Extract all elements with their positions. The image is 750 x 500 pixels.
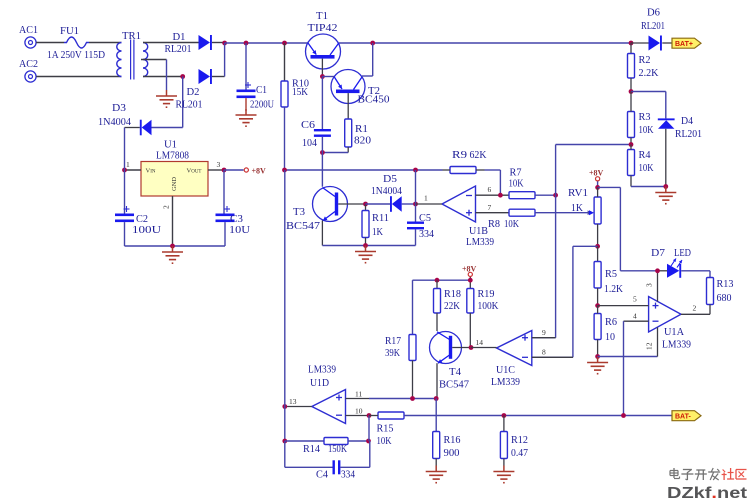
svg-text:D3: D3	[112, 102, 127, 114]
wire +8V branch to D7 riser	[598, 187, 621, 270]
svg-text:FU1: FU1	[60, 25, 79, 37]
junction R18 top	[435, 278, 440, 283]
wire R4 to ground	[631, 186, 666, 188]
wire R8 to RV1 wiper	[535, 210, 592, 215]
svg-text:LM339: LM339	[308, 364, 336, 376]
svg-text:11: 11	[355, 390, 362, 399]
svg-text:R4: R4	[639, 149, 651, 161]
svg-text:680: 680	[717, 292, 732, 304]
wire D3 cathode riser	[124, 128, 126, 171]
svg-text:820: 820	[354, 135, 372, 147]
junction R12 top	[502, 413, 507, 418]
op-amp U1C LM339	[491, 331, 532, 389]
svg-text:1N4004: 1N4004	[98, 116, 131, 128]
wire R1 bottom	[322, 152, 348, 154]
svg-text:R5: R5	[605, 268, 617, 280]
transistor T3	[286, 187, 366, 246]
wire BAT- line	[404, 415, 672, 417]
junction T3 base	[363, 202, 368, 207]
resistor R12	[500, 416, 528, 466]
wire T1 base to C6	[321, 77, 323, 130]
junction R11 bottom	[363, 243, 368, 248]
wire pin13 riser up	[284, 170, 286, 407]
svg-text:D1: D1	[173, 31, 186, 43]
svg-text:1: 1	[424, 194, 428, 203]
svg-text:R18: R18	[444, 288, 461, 300]
svg-text:RL201: RL201	[675, 128, 702, 140]
resistor R17	[385, 335, 416, 399]
ground center tap	[156, 90, 177, 107]
svg-text:R13: R13	[717, 278, 734, 290]
svg-text:T1: T1	[316, 10, 328, 22]
capacitor C1	[237, 82, 275, 111]
svg-text:T4: T4	[449, 366, 461, 378]
svg-text:22K: 22K	[444, 300, 460, 312]
wire pin11 line	[369, 398, 436, 400]
svg-text:10K: 10K	[377, 435, 392, 447]
junction D2 anode	[180, 74, 185, 79]
port BAT+	[672, 38, 701, 48]
wire AC2 to TR1	[36, 76, 121, 78]
svg-text:LM7808: LM7808	[156, 150, 189, 162]
svg-text:BAT+: BAT+	[675, 41, 693, 48]
svg-text:U1C: U1C	[496, 364, 515, 376]
svg-text:D2: D2	[187, 86, 200, 98]
resistor R16	[433, 432, 461, 466]
terminal AC2	[19, 58, 38, 82]
svg-text:1K: 1K	[571, 202, 583, 214]
junction T4 emitter	[434, 396, 439, 401]
junction C5 riser top	[413, 168, 418, 173]
junction D4 bottom	[663, 184, 668, 189]
junction C1 top	[244, 41, 249, 46]
junction D1 cathode	[222, 41, 227, 46]
wire riser R7 node to pin9	[532, 195, 556, 338]
svg-text:+8V: +8V	[589, 169, 604, 178]
svg-text:R6: R6	[605, 316, 617, 328]
junction T2 collector riser	[370, 41, 375, 46]
resistor R13	[707, 278, 734, 315]
junction T1 base	[320, 74, 325, 79]
pin 9 U1C	[532, 328, 556, 338]
transformer TR1	[117, 30, 148, 80]
junction R9 pin6	[498, 193, 503, 198]
svg-text:3: 3	[645, 283, 654, 287]
wire gnd to pin12	[598, 356, 658, 358]
junction U1 output	[222, 168, 227, 173]
capacitor C2	[115, 206, 161, 236]
svg-text:R2: R2	[639, 54, 651, 66]
svg-text:12: 12	[645, 342, 654, 350]
junction R7 right	[553, 193, 558, 198]
wire R9 to pin6 node	[485, 170, 501, 195]
capacitor C6	[301, 119, 331, 149]
resistor R9	[443, 149, 487, 174]
diode D7 LED	[620, 247, 691, 278]
resistor R5	[594, 246, 623, 305]
svg-text:GND: GND	[171, 177, 178, 191]
svg-text:13: 13	[289, 397, 297, 406]
resistor R8	[488, 209, 535, 230]
resistor R19	[467, 288, 499, 348]
svg-text:10K: 10K	[639, 162, 654, 174]
junction R14 right	[366, 439, 371, 444]
pin 12 label	[645, 342, 654, 350]
wire top rail T1 to D6	[339, 42, 631, 44]
regulator U1 LM7808	[141, 139, 208, 197]
pin 2 U1	[162, 196, 173, 246]
wire +8V to R19	[469, 277, 471, 289]
diode D6	[631, 7, 672, 51]
wire C6 bottom	[321, 137, 323, 153]
wire C1 top	[245, 43, 247, 90]
wire C3 bottom	[224, 222, 226, 246]
svg-text:R14: R14	[303, 443, 320, 455]
wire pin10 column	[368, 416, 370, 442]
op-amp U1A LM339	[649, 271, 692, 357]
junction R3 R4	[629, 142, 634, 147]
svg-text:15K: 15K	[292, 86, 308, 98]
svg-text:LM339: LM339	[662, 339, 691, 351]
svg-text:10U: 10U	[229, 224, 250, 236]
wire R2 to D4	[631, 92, 666, 119]
svg-text:RV1: RV1	[568, 187, 588, 199]
wire C4 right	[340, 441, 369, 467]
wire AC1 to FU1	[36, 42, 64, 44]
svg-text:R15: R15	[377, 423, 394, 435]
wire C5 bottom	[415, 229, 417, 245]
wire RV1 bottom to pin8 riser	[532, 246, 598, 357]
ground R16	[426, 466, 447, 483]
junction pin4 riser bottom	[621, 413, 626, 418]
svg-text:AC1: AC1	[19, 24, 38, 36]
diode D2	[176, 69, 225, 111]
wire R18 R17 top rail	[413, 280, 471, 334]
ground U1	[162, 246, 183, 263]
diode D3	[98, 102, 183, 135]
wire D2 cathode riser	[224, 43, 226, 77]
svg-text:C6: C6	[301, 119, 316, 131]
svg-text:R3: R3	[639, 111, 651, 123]
svg-text:10K: 10K	[639, 124, 654, 136]
junction R10 top	[282, 41, 287, 46]
svg-text:R12: R12	[511, 434, 528, 446]
svg-text:6: 6	[488, 185, 492, 194]
wire R3R4 to R7 node	[556, 145, 631, 196]
capacitor C4	[316, 460, 355, 480]
junction R14 left	[282, 439, 287, 444]
svg-text:900: 900	[444, 447, 460, 459]
svg-text:LM339: LM339	[466, 236, 494, 248]
svg-text:C4: C4	[316, 469, 328, 481]
ground T3	[355, 246, 376, 263]
wire TR1 top to D1	[143, 42, 199, 44]
svg-text:334: 334	[341, 469, 355, 481]
op-amp U1B LM339	[442, 186, 494, 248]
wire C2 bottom	[124, 222, 126, 246]
svg-text:R11: R11	[372, 212, 389, 224]
ground R12	[493, 466, 514, 483]
wire R10 node to R9	[285, 169, 443, 171]
pin 5 U1A	[598, 295, 649, 306]
svg-text:BC450: BC450	[358, 94, 390, 106]
svg-text:100U: 100U	[132, 224, 161, 236]
svg-text:VOUT: VOUT	[187, 168, 202, 175]
junction R6 bottom	[595, 354, 600, 359]
svg-text:TIP42: TIP42	[308, 22, 338, 34]
svg-text:4: 4	[633, 312, 637, 321]
svg-text:39K: 39K	[385, 347, 400, 359]
svg-text:14: 14	[476, 338, 484, 347]
wire D7 to R13	[681, 271, 710, 278]
junction R17 bottom	[410, 396, 415, 401]
svg-text:D6: D6	[647, 7, 660, 19]
svg-text:AC2: AC2	[19, 58, 38, 70]
svg-text:RL201: RL201	[641, 20, 665, 32]
pin 3 U1	[208, 160, 224, 170]
wire T4 emitter to R16	[435, 399, 437, 432]
svg-text:BAT-: BAT-	[675, 414, 691, 421]
junction pin13	[282, 404, 287, 409]
wire T3 emitter rail	[322, 245, 415, 247]
svg-text:100K: 100K	[478, 300, 499, 312]
junction R19 top	[468, 278, 473, 283]
wire C6 to T3 collector	[321, 153, 323, 187]
wire U1 ground rail	[125, 245, 226, 247]
wire C4 left	[285, 441, 333, 467]
svg-text:334: 334	[419, 228, 434, 240]
resistor R6	[594, 306, 617, 357]
svg-text:0.47: 0.47	[511, 447, 528, 459]
diode D1	[165, 31, 225, 55]
svg-text:104: 104	[302, 137, 317, 149]
svg-text:RL201: RL201	[176, 99, 203, 111]
svg-text:62K: 62K	[470, 149, 487, 161]
wire top rail D1 to T1	[225, 42, 309, 44]
wire C1 to ground	[245, 98, 247, 111]
svg-text:R1: R1	[355, 123, 368, 135]
pin 8 U1C	[532, 348, 573, 358]
svg-text:1A 250V 115D: 1A 250V 115D	[47, 49, 105, 61]
junction T4 base pin14	[469, 345, 474, 350]
junction pin10 R15	[367, 413, 372, 418]
svg-text:2.2K: 2.2K	[639, 67, 659, 79]
svg-text:1K: 1K	[372, 226, 383, 238]
junction U1 input	[122, 168, 127, 173]
wire T1 base to T2 emitter	[322, 76, 334, 78]
svg-text:D5: D5	[383, 173, 398, 185]
pin 10 U1D	[346, 407, 370, 416]
svg-text:R16: R16	[444, 434, 461, 446]
resistor R10	[281, 43, 309, 170]
resistor R14	[285, 438, 369, 456]
wire TR1 bottom to D2 anode	[143, 76, 183, 78]
svg-text:BC547: BC547	[286, 220, 321, 232]
terminal AC1	[19, 24, 38, 48]
logo text line1	[670, 468, 747, 480]
svg-text:150K: 150K	[328, 443, 347, 455]
svg-text:R9: R9	[452, 149, 468, 161]
resistor R15	[369, 412, 404, 447]
resistor R2	[628, 43, 659, 92]
transistor T4	[430, 332, 472, 399]
pin 1 U1	[125, 160, 142, 170]
wire pin4 riser	[623, 321, 625, 415]
svg-text:9: 9	[542, 328, 546, 337]
resistor R3	[628, 92, 654, 145]
transistor T1	[306, 10, 341, 77]
svg-text:BC547: BC547	[439, 379, 469, 391]
op-amp U1D LM339	[308, 364, 346, 424]
wire RV1 top	[597, 181, 599, 187]
resistor R4	[628, 145, 654, 187]
svg-text:2200U: 2200U	[250, 99, 274, 111]
svg-text:10: 10	[605, 331, 615, 343]
pin 6 U1B	[476, 185, 510, 195]
junction C6 R1	[320, 150, 325, 155]
pin 13 U1D	[285, 397, 312, 407]
svg-text:TR1: TR1	[122, 30, 141, 42]
junction R5 R6	[595, 303, 600, 308]
capacitor C3	[216, 206, 251, 236]
resistor R11	[362, 204, 389, 246]
wire D3 anode riser	[182, 77, 184, 128]
pin 2 U1A	[681, 304, 710, 315]
svg-text:+8V: +8V	[252, 167, 267, 176]
wire C5 top	[415, 204, 417, 222]
diode D5	[366, 173, 416, 212]
svg-text:T3: T3	[293, 206, 305, 218]
junction D5 anode pin1	[413, 202, 418, 207]
svg-text:C1: C1	[256, 84, 267, 96]
pin 4 U1A	[624, 312, 649, 322]
svg-text:+8V: +8V	[462, 265, 477, 274]
svg-text:10K: 10K	[509, 178, 524, 190]
logo text line2	[667, 485, 748, 500]
wire pin13 down	[284, 407, 286, 442]
svg-text:LED: LED	[674, 247, 691, 259]
svg-text:2: 2	[162, 205, 171, 209]
svg-text:1N4004: 1N4004	[371, 185, 402, 197]
power +8V U1	[244, 167, 266, 176]
svg-text:R19: R19	[478, 288, 495, 300]
resistor R7	[509, 167, 556, 199]
svg-text:10K: 10K	[504, 218, 519, 230]
svg-text:3: 3	[217, 160, 221, 169]
pin 11 U1D	[346, 390, 370, 399]
svg-text:2: 2	[693, 304, 697, 313]
junction RV1 bottom	[595, 244, 600, 249]
wire C2 top	[124, 170, 126, 214]
svg-text:R17: R17	[385, 335, 401, 347]
svg-text:RL201: RL201	[165, 43, 192, 55]
svg-text:R8: R8	[488, 218, 500, 230]
junction R10 R9 U1D	[282, 168, 287, 173]
svg-text:D7: D7	[651, 247, 666, 259]
wire C5 riser	[415, 170, 417, 204]
capacitor C5	[407, 212, 434, 240]
pin 14 U1C	[471, 338, 497, 348]
ground C1	[236, 109, 257, 126]
transistor T2	[331, 70, 390, 120]
pin 1 U1B	[416, 194, 443, 205]
power +8V R19	[462, 265, 477, 277]
wire TR1 center tap	[141, 60, 167, 91]
svg-text:1.2K: 1.2K	[604, 283, 623, 295]
svg-text:5: 5	[633, 295, 637, 304]
ground R6	[587, 357, 608, 374]
wire U1 out to +8V	[224, 169, 244, 171]
svg-text:DZkf.net: DZkf.net	[667, 485, 748, 500]
junction U1 gnd	[170, 244, 175, 249]
resistor R18	[434, 280, 462, 331]
svg-text:7: 7	[488, 203, 492, 212]
svg-text:C5: C5	[419, 212, 431, 224]
fuse FU1	[47, 25, 105, 61]
port BAT-	[672, 411, 701, 421]
svg-text:LM339: LM339	[491, 376, 520, 388]
svg-text:D4: D4	[681, 115, 693, 127]
svg-text:10: 10	[355, 407, 363, 416]
potentiometer RV1	[568, 187, 601, 246]
svg-text:8: 8	[542, 348, 546, 357]
svg-text:VIN: VIN	[146, 168, 156, 175]
diode D4	[658, 115, 702, 187]
pin 3 label	[645, 283, 654, 287]
svg-text:U1A: U1A	[664, 326, 684, 338]
wire C3 top	[224, 170, 225, 214]
pin 7 U1B	[476, 203, 510, 213]
junction RV1 top branch	[595, 185, 600, 190]
wire FU1 to TR1	[89, 42, 122, 44]
junction D7 pin3	[655, 268, 660, 273]
svg-text:U1D: U1D	[310, 377, 329, 389]
svg-text:1: 1	[126, 160, 130, 169]
resistor R1	[345, 119, 372, 153]
wire T2 collector to rail	[362, 43, 373, 76]
junction R2 bottom	[629, 89, 634, 94]
junction R2 top	[629, 41, 634, 46]
power +8V RV1	[589, 169, 604, 181]
ground R4 D4	[655, 187, 676, 204]
